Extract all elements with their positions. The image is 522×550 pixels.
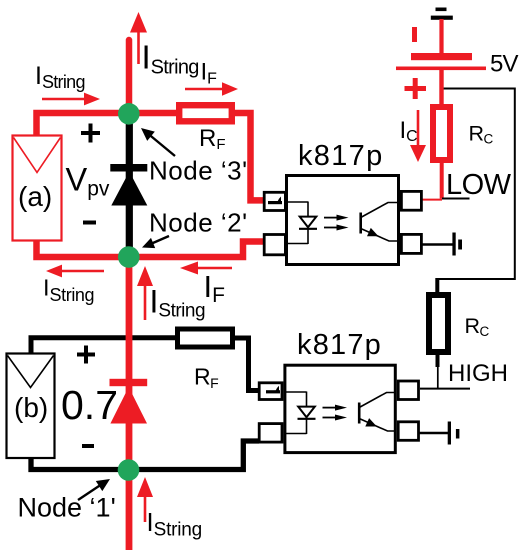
- wire panel b top loop black: [31, 338, 177, 354]
- opto U2 body: [285, 365, 395, 452]
- arrow IString bottom (up): [144, 495, 147, 522]
- svg-text:Node ‘1': Node ‘1': [18, 493, 116, 523]
- diode lower triangle: [110, 387, 147, 424]
- opto U1 transistor: [359, 213, 362, 234]
- opto U1 pin3: [401, 234, 421, 253]
- diode lower (red) cathode bar: [110, 379, 148, 386]
- opto U2 pin3: [398, 422, 418, 441]
- arrow to node 1: [78, 484, 102, 500]
- diode upper cathode bar: [110, 164, 147, 172]
- arrow IString mid-left (pointing left): [60, 270, 104, 273]
- label minus upper: [83, 221, 96, 225]
- wire HIGH junction horizontal: [420, 388, 470, 390]
- svg-text:0.7: 0.7: [61, 382, 118, 428]
- opto U2 led triangle: [298, 407, 315, 418]
- opto U2 light arrows: [323, 407, 337, 409]
- wire red RF right to pin1: [233, 113, 264, 200]
- opto U1 body: [287, 176, 399, 265]
- opto U2 pin1: [259, 383, 282, 400]
- ground upper right: [452, 233, 455, 256]
- ground lower right: [448, 422, 451, 445]
- svg-text:LOW: LOW: [446, 169, 512, 201]
- panel (a): [13, 136, 62, 241]
- wire red top-left loop: [37, 113, 130, 136]
- panel (b): [7, 354, 55, 459]
- opto U2 transistor: [358, 403, 361, 424]
- battery plus mark red: [405, 86, 427, 91]
- wire red node2 right to pin2: [129, 242, 264, 258]
- wire black from battery plus to right edge and down to Rc: [438, 89, 515, 280]
- opto U1 led bar: [299, 228, 317, 230]
- battery plate long thick: [411, 53, 472, 60]
- opto U1 pin1: [264, 192, 285, 210]
- opto U1 pin2: [264, 235, 285, 255]
- wire thin from Rc to HIGH junction: [437, 366, 439, 389]
- wire stub into black Rc top: [435, 278, 439, 295]
- wire black LOW junction: [442, 198, 470, 200]
- svg-text:(b): (b): [14, 392, 48, 423]
- opto U2 pin2: [259, 424, 282, 443]
- wire stub black Rc bottom: [436, 352, 440, 367]
- wire red node3 to RF: [129, 110, 180, 117]
- wire upper opto pin3 to ground: [420, 243, 453, 245]
- wire red upper pin4 to junction: [420, 199, 442, 201]
- svg-text:(a): (a): [18, 181, 52, 212]
- arrow to node 2: [146, 236, 169, 246]
- opto U2 led bar: [298, 418, 316, 420]
- svg-text:HIGH: HIGH: [448, 360, 508, 387]
- node 1: [118, 459, 140, 481]
- battery plate thin wide: [396, 67, 486, 71]
- opto U2 pin4: [398, 381, 418, 400]
- arrow IC down: [417, 110, 420, 147]
- svg-text:Node ‘3': Node ‘3': [149, 156, 248, 186]
- wire red string vertical node2 to bottom: [126, 257, 133, 550]
- label plus lower: [77, 353, 95, 357]
- ground top battery: [436, 8, 447, 12]
- wire red bottom-left loop to node2: [37, 240, 130, 257]
- wire red ground to battery: [439, 19, 443, 56]
- node 3: [118, 103, 140, 125]
- diode bypass upper (black) wire: [126, 114, 133, 257]
- opto U1 led triangle: [300, 217, 317, 228]
- arrow IString mid-center (up): [144, 284, 147, 320]
- arrow IF top: [185, 88, 224, 91]
- resistor RF upper (red): [179, 105, 232, 121]
- resistor Rc upper (red): [433, 107, 450, 160]
- opto U2 led connectors: [286, 391, 307, 393]
- wire lower RF right to pin1: [234, 338, 259, 391]
- svg-text:k817p: k817p: [298, 140, 384, 172]
- svg-text:k817p: k817p: [297, 329, 382, 361]
- arrow to node 3: [146, 132, 175, 156]
- svg-text:Node ‘2': Node ‘2': [149, 208, 248, 238]
- battery minus mark red: [412, 27, 417, 42]
- arrow IF mid (pointing left): [196, 267, 232, 270]
- wire red string top vertical: [126, 40, 133, 114]
- opto U1 pin1 label: [268, 201, 282, 204]
- resistor Rc lower (black): [429, 295, 448, 352]
- wire red Rc to LOW junction: [440, 160, 444, 199]
- opto U1 led connectors: [287, 201, 308, 203]
- resistor RF lower (black): [178, 329, 233, 347]
- label plus upper: [81, 131, 100, 135]
- opto U1 pin4: [401, 191, 421, 210]
- opto U2 pin1 label: [266, 390, 280, 393]
- label minus lower: [82, 444, 94, 448]
- diode upper triangle: [111, 172, 147, 206]
- arrow IString top-left: [42, 98, 86, 101]
- wire lower opto pin3 to ground: [418, 432, 448, 434]
- node 2: [118, 246, 140, 268]
- arrow IString top-center: [137, 30, 140, 64]
- wire node1 row black to pin2: [31, 441, 259, 470]
- wire red battery to Rc: [439, 70, 443, 107]
- opto U1 light arrows: [324, 217, 338, 219]
- svg-text:5V: 5V: [490, 51, 519, 78]
